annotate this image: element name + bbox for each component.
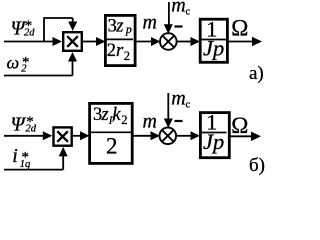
svg-text:Jp: Jp	[203, 36, 224, 61]
svg-text:r: r	[116, 41, 124, 61]
svg-text:z: z	[115, 17, 123, 37]
svg-text:Ω: Ω	[231, 16, 248, 41]
svg-text:m: m	[143, 111, 157, 133]
svg-text:а): а)	[249, 63, 264, 84]
svg-text:ω: ω	[7, 53, 20, 73]
svg-text:б): б)	[249, 155, 265, 176]
svg-text:m: m	[171, 88, 185, 110]
svg-text:1q: 1q	[20, 159, 31, 170]
svg-text:Ω: Ω	[231, 113, 248, 138]
svg-text:2: 2	[124, 49, 130, 63]
svg-text:Ψ: Ψ	[11, 114, 27, 136]
svg-text:m: m	[171, 0, 185, 17]
svg-text:z: z	[100, 105, 108, 125]
svg-text:c: c	[186, 7, 191, 18]
svg-text:2: 2	[107, 41, 116, 61]
svg-text:k: k	[112, 105, 121, 125]
svg-text:2d: 2d	[26, 124, 37, 135]
svg-text:2d: 2d	[24, 28, 35, 39]
svg-text:c: c	[186, 100, 191, 111]
svg-text:m: m	[143, 12, 157, 34]
svg-text:p: p	[125, 22, 132, 36]
svg-text:i: i	[12, 145, 18, 167]
svg-text:Jp: Jp	[203, 129, 224, 154]
svg-text:2: 2	[106, 134, 118, 159]
svg-text:2: 2	[121, 113, 127, 127]
svg-text:2: 2	[21, 64, 27, 75]
